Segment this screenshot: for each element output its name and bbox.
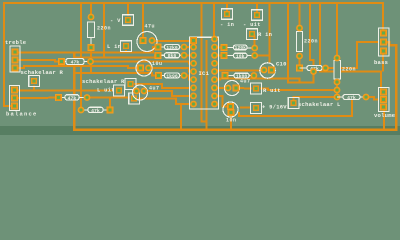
wire treble pin1 bus y52.5 <box>17 47 157 53</box>
svg-text:47k: 47k <box>347 95 356 101</box>
pad R in <box>247 29 258 40</box>
resistor R5b 47k <box>78 107 114 115</box>
pad schakelaar R <box>29 76 40 87</box>
svg-text:- uit: - uit <box>243 21 261 28</box>
wire R5 right to junction pad <box>87 97 130 99</box>
resistor R9 47k <box>337 94 369 101</box>
pad via x313 <box>310 68 317 75</box>
wire ground branch x181 <box>180 104 182 130</box>
wire L in stub <box>125 50 127 53</box>
wire v1 x288 <box>288 2 314 83</box>
wire balance pin 1 bus y90.5 <box>18 90 114 92</box>
svg-text:- V: - V <box>110 17 121 24</box>
wire bus y57.5 to C6 <box>74 55 158 57</box>
svg-text:schakelaar R: schakelaar R <box>21 69 64 76</box>
pad -uit <box>252 10 263 21</box>
svg-text:120k: 120k <box>234 45 246 51</box>
wire C8 to R uit pad <box>236 87 252 90</box>
svg-text:47k: 47k <box>91 108 100 114</box>
wire x337 top feed to C12 <box>336 2 338 58</box>
wire ground loop bottom and right <box>74 42 396 130</box>
pad L in <box>121 41 132 52</box>
pad junction white <box>129 93 140 104</box>
resistor R7 10k <box>221 52 259 59</box>
capacitor C6 10u <box>136 60 152 76</box>
svg-text:R in: R in <box>258 31 272 38</box>
wire C11 bottom pads link <box>299 56 301 68</box>
connector bass <box>379 28 390 56</box>
wire -uit pad feed <box>256 2 258 15</box>
wire -in pad feed <box>226 2 228 14</box>
wire volume pin 3 to ground <box>383 107 385 130</box>
board background <box>0 0 400 126</box>
wire x352 down bus y116 <box>239 100 352 117</box>
wire schakelaar R pad down <box>33 86 35 91</box>
capacitor C4 47u <box>137 32 157 52</box>
wire vertical x81 <box>80 2 82 110</box>
resistor R5 47k <box>55 94 90 101</box>
svg-text:10n: 10n <box>226 118 237 124</box>
svg-text:10u: 10u <box>152 61 163 67</box>
wire IC right pin 2 to R6 <box>214 46 221 48</box>
wire v3 x310 <box>310 2 314 72</box>
wire branch x110 to R5b <box>109 98 111 111</box>
capacitor C7 4u7 <box>133 85 148 100</box>
wire R8 to bass pin 2 <box>326 42 379 68</box>
wire IC right pin 3 to R7 <box>214 54 221 56</box>
svg-text:- in: - in <box>220 21 234 28</box>
wire vertical x144 to C4 <box>142 2 144 38</box>
wire -V pad feed <box>127 2 129 16</box>
svg-text:47k: 47k <box>71 59 80 65</box>
wire schakelaar L to R9 volume <box>294 97 335 103</box>
svg-text:47u: 47u <box>145 24 156 30</box>
wire R2 to IC pin 17 <box>184 46 194 48</box>
pad +9/16V <box>251 103 262 114</box>
wire bus y73 <box>74 73 156 76</box>
svg-text:220n: 220n <box>97 26 111 32</box>
resistor R1 47k <box>58 58 94 65</box>
svg-text:4u7: 4u7 <box>149 86 160 92</box>
pad schakelaar L <box>288 98 299 109</box>
wire vertical x208 through IC <box>206 40 208 129</box>
resistor R2 12k <box>155 44 188 51</box>
wire C6 pad to IC pin 5 <box>149 68 194 72</box>
wire C7 to IC pin 8 <box>145 91 194 96</box>
capacitor C12 220n <box>334 55 341 101</box>
capacitor C10 <box>260 63 275 78</box>
svg-text:schakelaar R: schakelaar R <box>82 78 125 85</box>
svg-text:47k: 47k <box>68 95 77 101</box>
wire R7 right to v0 <box>255 55 270 57</box>
svg-text:8k6: 8k6 <box>168 53 177 59</box>
svg-text:IC1: IC1 <box>199 70 210 77</box>
wire v0 top feed to C10 <box>269 2 271 63</box>
resistor R8 47k <box>300 65 329 72</box>
op-amp IC1 <box>190 36 219 109</box>
svg-text:L in: L in <box>107 43 121 50</box>
wire R3 to IC pin 16 <box>184 54 194 56</box>
svg-text:C10: C10 <box>276 61 287 68</box>
resistor R4 1k96 <box>155 72 187 79</box>
wire IC pin 5 to C10 pad <box>214 70 261 72</box>
wire balance pin 2 to R5 <box>18 97 55 99</box>
wire junction pad to IC pin 9 <box>138 99 194 105</box>
svg-text:volume: volume <box>374 112 396 119</box>
capacitor C2 220n <box>88 14 95 51</box>
wire C9 to ground <box>230 113 232 130</box>
wire bass pin 3 down <box>382 51 384 72</box>
svg-text:bass: bass <box>374 59 388 66</box>
connector volume <box>379 88 390 112</box>
svg-text:schakelaar L: schakelaar L <box>298 101 341 108</box>
wire v4 x320 to volume pin 1 <box>320 2 381 92</box>
wire cap C2 top feed <box>90 2 92 17</box>
svg-text:220n: 220n <box>342 67 356 73</box>
wire +9/16V pad stub <box>240 106 251 108</box>
wire left border to balance pin 3 <box>4 2 15 106</box>
wire IC pin 7 to C8 <box>215 87 226 89</box>
svg-text:10k: 10k <box>236 53 245 59</box>
wire C4 right pad to IC pin 1 <box>152 40 191 42</box>
resistor R6 120k <box>221 44 259 51</box>
wire R6 right up to R in <box>253 34 255 48</box>
connector balance <box>10 86 20 111</box>
wire vertical x104 to C6 right pad <box>103 2 105 58</box>
wire IC pin 6 bus y78.5 <box>214 79 300 83</box>
resistor R3 8k6 <box>155 52 188 59</box>
wire R uit to schakelaar pad <box>260 89 334 91</box>
svg-text:balance: balance <box>6 111 38 118</box>
wire R9 right to volume pin 2 <box>366 97 379 100</box>
capacitor C9 10n <box>223 102 238 117</box>
wire treble pin2 to R1 <box>17 60 60 62</box>
svg-text:1k96: 1k96 <box>166 73 178 79</box>
svg-text:R uit: R uit <box>263 87 281 94</box>
wire vertical x201 through IC <box>202 2 207 122</box>
wire IC pin 8 to C9 <box>215 96 229 107</box>
capacitor C11 220n <box>296 25 303 72</box>
svg-text:220n: 220n <box>304 39 318 45</box>
svg-text:treble: treble <box>5 39 27 46</box>
svg-text:+ 9/16V: + 9/16V <box>262 104 287 111</box>
pad -in <box>222 9 233 20</box>
svg-text:L uit: L uit <box>97 87 115 94</box>
wire R uit pad to IC pin 7 <box>134 84 194 88</box>
capacitor C8 4u7 <box>225 81 240 96</box>
connector treble <box>10 46 20 72</box>
wire R4 to IC pin 6 <box>184 76 194 80</box>
svg-text:12k6: 12k6 <box>166 45 178 51</box>
pad -V <box>123 15 134 26</box>
wire cap C2 bottom to R1 right <box>90 48 92 74</box>
board bottom dark strip <box>0 126 400 135</box>
resistor R10 1k00 <box>222 72 258 79</box>
wire treble pin3 to C6 <box>17 66 138 68</box>
pad R uit <box>251 83 262 94</box>
pad L uit switch <box>114 85 125 96</box>
wire top border to bass top pin <box>4 3 383 33</box>
wire x214 border to IC pin 18 <box>213 2 215 39</box>
svg-text:4u7: 4u7 <box>240 79 251 85</box>
wire v2 x299.5 top <box>299 2 301 28</box>
wire C12 pads chain <box>336 82 338 97</box>
wire R1 to IC pin 4 <box>91 62 194 64</box>
pad R uit switch <box>125 79 136 90</box>
